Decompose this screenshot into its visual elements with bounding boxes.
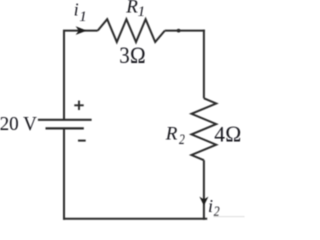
svg-text:i: i <box>208 196 213 216</box>
wire right vertical upper <box>203 30 205 99</box>
label R2 <box>165 123 185 148</box>
junction dot on top wire <box>177 29 181 33</box>
svg-text:4Ω: 4Ω <box>214 122 241 147</box>
svg-text:R: R <box>165 123 178 144</box>
svg-text:1: 1 <box>79 9 87 25</box>
minus sign <box>78 140 86 142</box>
label i2 <box>208 196 220 220</box>
wire bottom horizontal <box>63 218 207 220</box>
wire top horizontal left segment <box>63 30 98 32</box>
label R1 <box>125 0 145 20</box>
svg-text:2: 2 <box>214 204 220 220</box>
wire top-left vertical (source top lead) <box>63 31 65 120</box>
svg-text:2: 2 <box>179 132 185 148</box>
wire left vertical lower (source bottom lead) <box>63 128 65 220</box>
svg-text:20 V: 20 V <box>0 113 37 135</box>
plus sign <box>74 101 83 110</box>
svg-text:i: i <box>74 0 79 20</box>
resistor R1 zigzag <box>98 19 165 42</box>
wire right vertical lower <box>203 160 205 220</box>
battery V1 20V positive plate <box>38 119 92 121</box>
svg-text:R: R <box>125 0 138 18</box>
current arrow i2 <box>199 197 208 206</box>
current arrow i1 <box>76 26 87 35</box>
label i1 <box>74 0 87 25</box>
faint guide line bottom right <box>214 216 245 218</box>
wire top horizontal right segment <box>165 30 205 32</box>
svg-text:3Ω: 3Ω <box>119 43 146 68</box>
battery V1 20V negative plate <box>46 127 84 129</box>
svg-text:1: 1 <box>138 4 146 20</box>
resistor R2 zigzag <box>192 98 217 160</box>
